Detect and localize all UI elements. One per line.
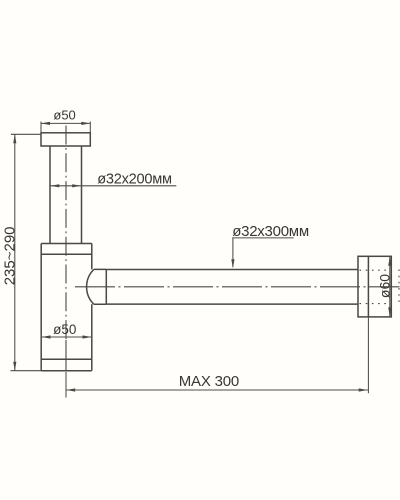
arrow top o50 right [81, 122, 90, 125]
hidden pipe lines in flange (dotted) [360, 269, 400, 304]
dim ext: MAX300 left [65, 372, 67, 398]
top flange outline [41, 133, 90, 146]
wall flange outline [358, 256, 391, 317]
dim ext: left bottom [11, 370, 42, 372]
dim ext: MAX300 right [367, 318, 369, 394]
arrow bottom o50 left [42, 335, 51, 338]
wall flange inner face line [367, 256, 369, 317]
arrow MAX300 left [66, 388, 75, 391]
svg-text:ø32x200мм: ø32x200мм [97, 171, 172, 187]
arrow o32x200 left [50, 184, 59, 187]
dim ext: top flange right [89, 122, 91, 133]
arrow 235~290 up [13, 134, 16, 143]
arrow o60 down [388, 307, 391, 316]
arrow leader o32x300 down [231, 259, 234, 268]
dim line: 235~290 [14, 134, 16, 370]
center line vertical lower solid [65, 340, 67, 371]
dim line: o60 [389, 257, 391, 317]
body inner cap lines [41, 254, 92, 359]
arrow o32x200 right [72, 184, 81, 187]
dim line: top o50 [41, 122, 90, 124]
svg-text:ø50: ø50 [53, 322, 76, 337]
center line horizontal [75, 286, 400, 288]
horizontal pipe walls [106, 270, 358, 305]
arrow bottom o50 right [83, 335, 92, 338]
dim line: MAX 300 [66, 389, 368, 391]
connector nut [87, 269, 107, 304]
siphon body outline [41, 244, 92, 371]
arrow top o50 left [41, 122, 50, 125]
svg-text:ø50: ø50 [53, 108, 75, 123]
dim ext: top flange left [40, 122, 42, 133]
arrow MAX300 right [359, 388, 368, 391]
arrow 235~290 down [13, 362, 16, 371]
svg-text:ø32x300мм: ø32x300мм [232, 223, 309, 240]
hidden wall line at image edge [398, 269, 400, 304]
dim ext: left top [11, 133, 41, 135]
dim line: bottom o50 [41, 336, 92, 338]
dim line: o32x200 [50, 185, 176, 187]
center line vertical [66, 126, 400, 371]
arrow o60 up [388, 257, 391, 266]
svg-text:ø60: ø60 [376, 274, 392, 298]
leader o32x300 [232, 238, 293, 267]
svg-text:MAX 300: MAX 300 [179, 373, 239, 390]
svg-text:235~290: 235~290 [1, 226, 18, 285]
vertical pipe walls [50, 146, 82, 244]
